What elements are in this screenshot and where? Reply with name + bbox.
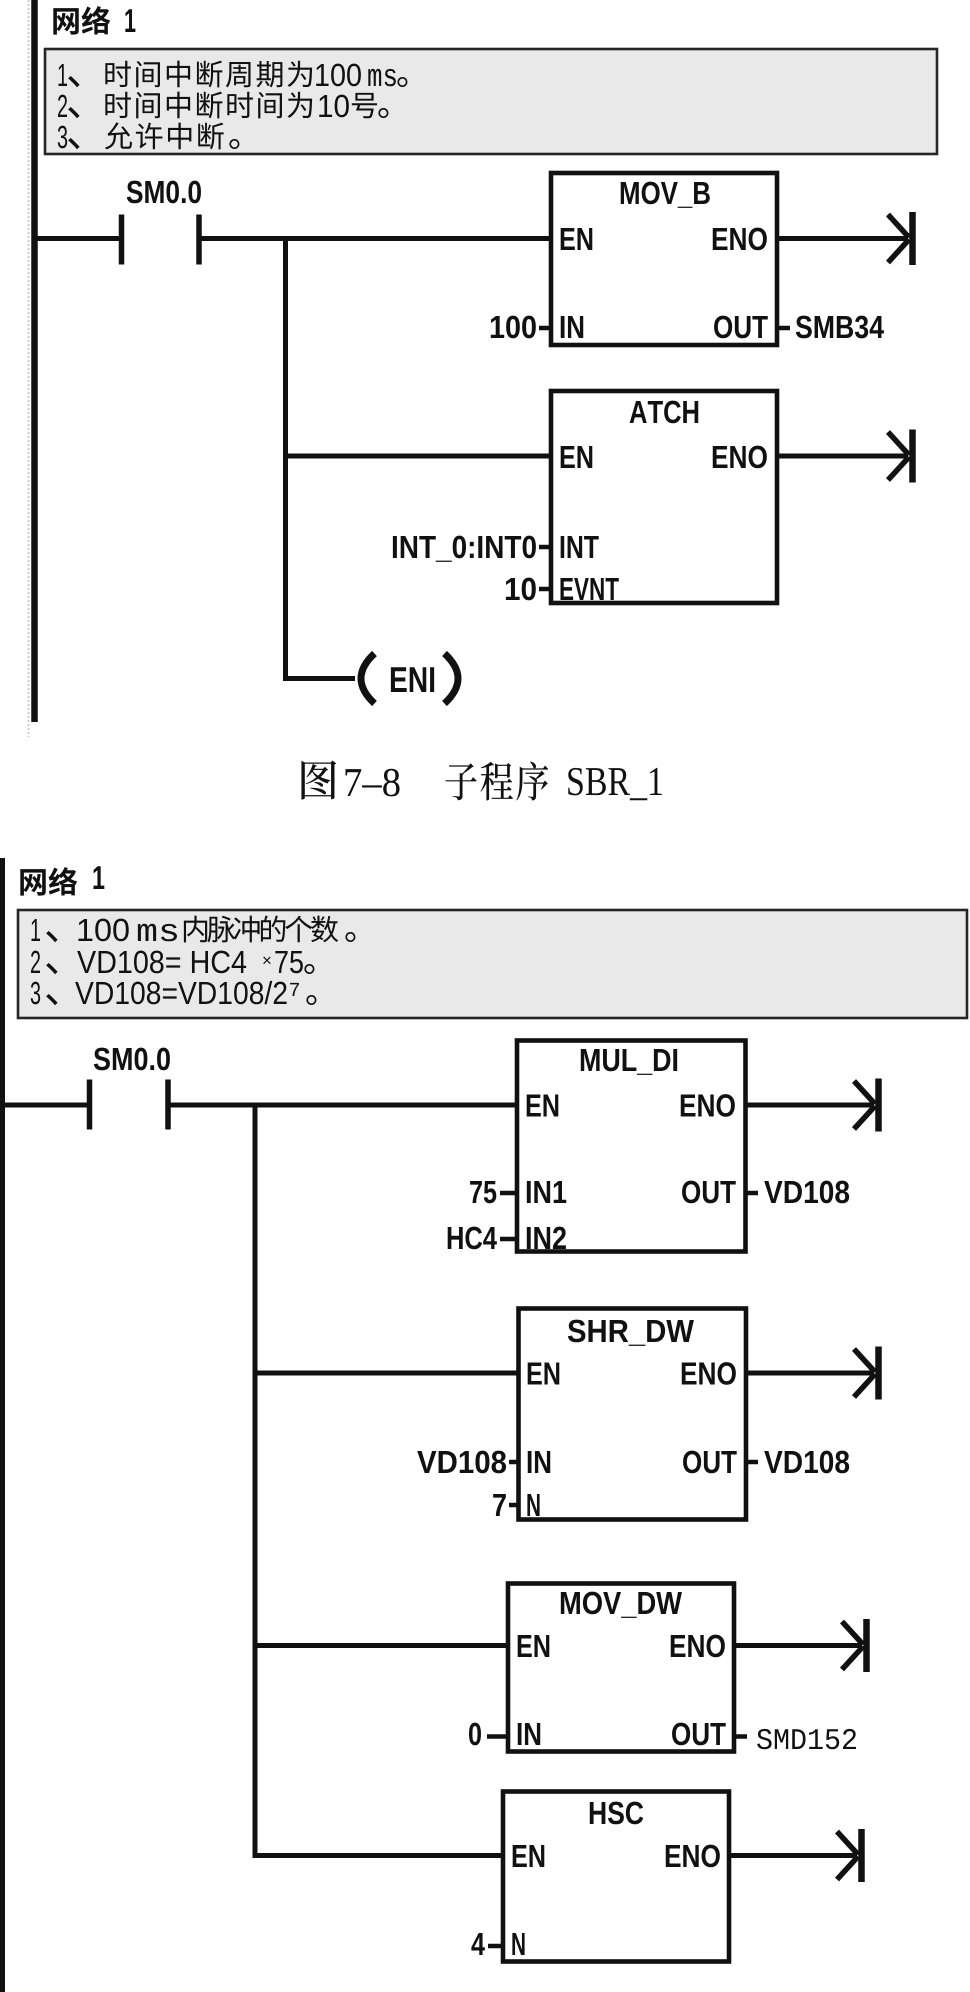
- wire rung 4 (branch to HSC EN): [255, 1853, 503, 1858]
- wire rung 3 (branch to ENI coil): [286, 676, 356, 681]
- pin label ENO (MOV_B): [713, 228, 767, 251]
- pin label IN (MOV_DW): [518, 1723, 540, 1745]
- power rail (left bus bar, network 2): [0, 858, 5, 1992]
- wire ENO output + rung terminator arrow (MOV_B): [777, 212, 913, 265]
- wire rung 2 (branch to ATCH EN): [286, 454, 552, 459]
- pin label ENO (MOV_DW): [671, 1635, 725, 1658]
- wire ENO output + rung terminator arrow (MUL_DI): [746, 1079, 879, 1132]
- contact label SM0.0 (network 1): [127, 181, 201, 204]
- operand INT_0:INT0 (INT of ATCH): [393, 536, 536, 562]
- pin label N (SHR_DW): [527, 1494, 539, 1516]
- block title MUL_DI: [581, 1049, 677, 1075]
- block title MOV_B: [621, 182, 710, 208]
- block title MOV_DW: [561, 1592, 682, 1618]
- pin stub OUT (MOV_DW): [734, 1734, 747, 1739]
- pin stub IN2 (MUL_DI): [500, 1237, 517, 1242]
- function block MUL_DI: [517, 1041, 746, 1252]
- operand 4 (N of HSC): [471, 1933, 484, 1955]
- block title ATCH: [630, 401, 699, 424]
- coil ENI (enable interrupts): [361, 654, 458, 704]
- operand VD108 (IN of SHR_DW): [417, 1451, 506, 1474]
- pin label EN (HSC): [513, 1845, 545, 1867]
- pin label IN (MOV_B): [561, 316, 583, 338]
- pin label EVNT (ATCH): [561, 578, 619, 600]
- function block SHR_DW: [519, 1309, 747, 1520]
- pin label EN (ATCH): [561, 446, 593, 468]
- pin label ENO (MUL_DI): [681, 1094, 735, 1117]
- pin stub OUT (MUL_DI): [746, 1191, 759, 1196]
- pin stub N (HSC): [488, 1944, 503, 1949]
- pin stub OUT (SHR_DW): [746, 1460, 758, 1465]
- pin label ENO (ATCH): [713, 446, 767, 469]
- comment line 3: VD108=VD108/2^7: [31, 981, 317, 1005]
- pin label OUT (MOV_B): [714, 316, 768, 339]
- pin label OUT (MOV_DW): [672, 1723, 726, 1746]
- contact label SM0.0 (network 2): [94, 1048, 170, 1071]
- comment line 2: 时间中断时间为10号: [58, 92, 388, 119]
- pin label N (HSC): [512, 1933, 524, 1955]
- pin label ENO (SHR_DW): [682, 1362, 736, 1385]
- comment box (network 1 top): [45, 49, 937, 154]
- power rail (left bus bar, network 1): [31, 0, 38, 722]
- wire ENO output + rung terminator arrow (MOV_DW): [734, 1619, 867, 1672]
- pin stub IN (MOV_B): [539, 326, 551, 331]
- network 1 title (top): [53, 6, 135, 35]
- figure caption 图7-8 子程序 SBR_1: [301, 760, 661, 800]
- comment box (network 2): [18, 910, 967, 1018]
- pin stub IN (SHR_DW): [509, 1460, 519, 1465]
- pin label EN (SHR_DW): [528, 1362, 560, 1384]
- pin stub EVNT (ATCH): [539, 587, 551, 592]
- left margin guide line: [28, 0, 30, 737]
- pin stub IN (MOV_DW): [487, 1734, 508, 1739]
- pin stub OUT (MOV_B): [777, 326, 790, 331]
- operand SMD152 (OUT of MOV_DW): [757, 1729, 856, 1749]
- pin label EN (MOV_B): [561, 228, 593, 250]
- block title HSC: [590, 1802, 643, 1825]
- wire rung 3 (branch to MOV_DW EN): [255, 1643, 508, 1648]
- contact SM0.0 (network 2, normally open): [90, 1080, 169, 1130]
- pin label IN1 (MUL_DI): [527, 1181, 566, 1203]
- pin stub INT (ATCH): [539, 545, 551, 550]
- wire ENO output + rung terminator arrow (SHR_DW): [746, 1347, 879, 1400]
- pin stub IN1 (MUL_DI): [500, 1191, 517, 1196]
- pin label EN (MUL_DI): [527, 1094, 559, 1116]
- operand 10 (EVNT of ATCH): [506, 578, 536, 601]
- wire rung 2 (branch to SHR_DW EN): [255, 1371, 519, 1376]
- contact SM0.0 (normally open): [122, 215, 200, 265]
- operand VD108 (OUT of MUL_DI): [764, 1181, 849, 1204]
- pin label OUT (SHR_DW): [683, 1451, 737, 1474]
- comment line 1: 时间中断周期为100ms: [59, 61, 408, 88]
- network 2 title: [20, 866, 104, 895]
- operand 100 (IN of MOV_B): [491, 316, 536, 339]
- function block MOV_DW: [508, 1584, 734, 1752]
- comment line 1: 100ms内脉冲的个数: [32, 916, 356, 943]
- operand 7 (N of SHR_DW): [493, 1494, 506, 1516]
- pin label INT (ATCH): [561, 536, 599, 558]
- pin stub N (SHR_DW): [509, 1503, 519, 1508]
- pin label IN (SHR_DW): [528, 1451, 550, 1473]
- pin label ENO (HSC): [666, 1845, 720, 1868]
- operand VD108 (OUT of SHR_DW): [764, 1451, 849, 1474]
- function block ATCH: [551, 391, 777, 603]
- wire ENO output + rung terminator arrow (ATCH): [777, 430, 913, 483]
- pin label OUT (MUL_DI): [682, 1181, 736, 1204]
- operand 0 (IN of MOV_DW): [469, 1723, 481, 1746]
- pin label IN2 (MUL_DI): [527, 1227, 566, 1249]
- operand HC4 (IN2 of MUL_DI): [448, 1227, 497, 1250]
- comment line 2: VD108= HC4 ×75: [31, 951, 314, 975]
- function block HSC: [503, 1792, 729, 1962]
- wire rung 1 (rail to contact to MUL_DI EN): [3, 1103, 518, 1108]
- operand SMB34 (OUT of MOV_B): [796, 316, 884, 339]
- pin label EN (MOV_DW): [518, 1635, 550, 1657]
- wire branch vertical (network 2 junction): [253, 1103, 258, 1859]
- block title SHR_DW: [568, 1320, 694, 1346]
- comment line 3: 允许中断: [58, 122, 240, 149]
- wire rung 1 (rail to contact to MOV_B EN): [35, 236, 552, 241]
- operand 75 (IN1 of MUL_DI): [470, 1181, 496, 1203]
- wire ENO output + rung terminator arrow (HSC): [729, 1829, 862, 1882]
- wire branch vertical (junction on rung 1): [283, 236, 288, 681]
- function block MOV_B: [551, 173, 777, 345]
